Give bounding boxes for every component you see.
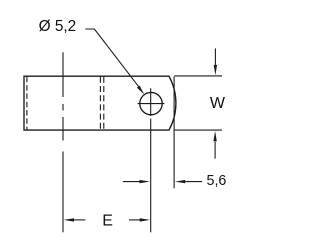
5,6 right arrow [186,181,203,183]
part outline: flat lug with rounded end [24,76,176,130]
W up arrow [214,142,216,159]
W bottom extension line [175,129,223,131]
W top extension line [174,75,222,77]
E dimension left arrow [74,219,85,221]
leader arrowhead [137,86,144,95]
svg-text:Ø 5,2: Ø 5,2 [39,18,77,35]
hole (diameter 5,2) [140,92,162,114]
hole centerline vertical / E right extension [150,88,152,232]
5,6 left arrow [123,181,140,183]
W down arrow [214,48,216,65]
E dimension right arrow [129,219,140,221]
svg-text:E: E [102,213,113,230]
svg-text:5,6: 5,6 [207,173,227,189]
vertical centerline / E left extension (dash-dot) [62,52,64,232]
hidden edge pair (dashed) [99,77,101,130]
5,6 right extension line [173,77,175,189]
leader line to hole [85,29,138,87]
hole crosshair horizontal [138,103,165,105]
svg-text:W: W [210,95,226,112]
hidden edge left (dashed) [26,77,28,130]
